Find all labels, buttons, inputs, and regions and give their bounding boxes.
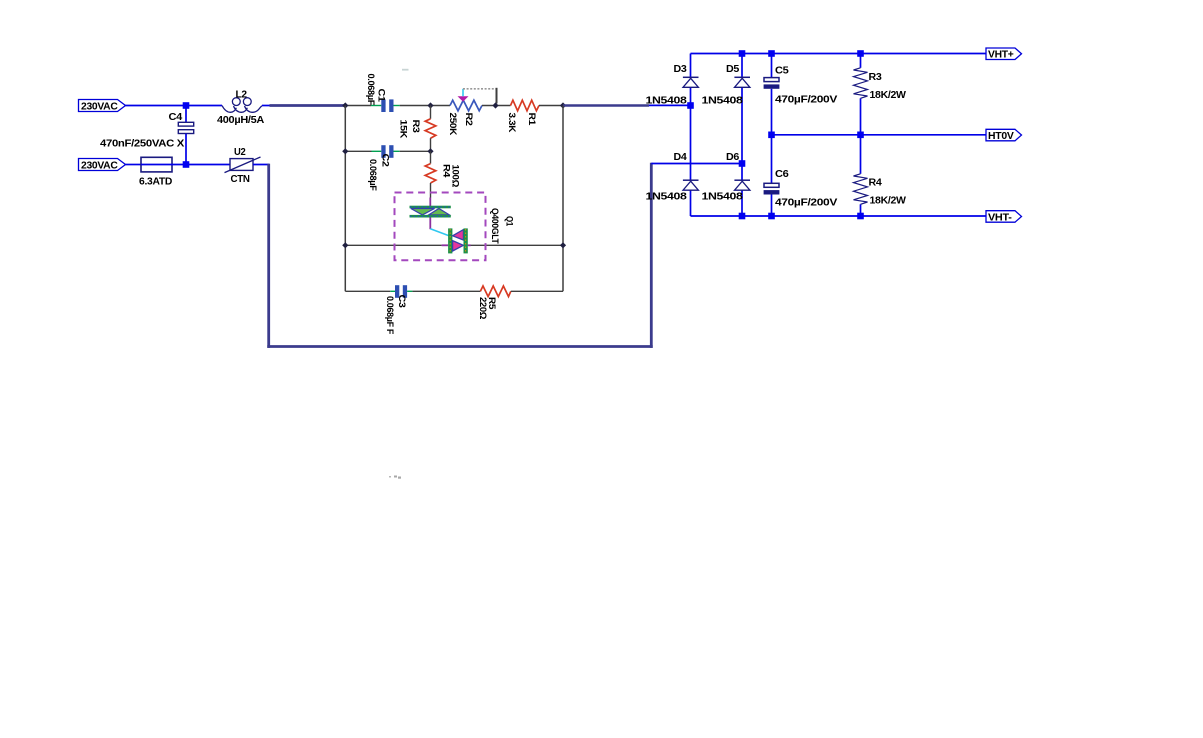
node diamond A xyxy=(342,102,348,108)
wire green stub C3 right xyxy=(407,290,412,292)
svg-text:18K/2W: 18K/2W xyxy=(870,89,907,101)
node diamond B xyxy=(427,102,433,108)
svg-text:230VAC: 230VAC xyxy=(81,101,118,113)
svg-text:1N5408: 1N5408 xyxy=(702,95,744,107)
svg-text:D4: D4 xyxy=(674,151,687,163)
wire gray C3 row left xyxy=(345,290,390,292)
wire blue to bridge ac2 xyxy=(651,163,742,165)
capacitor C2 xyxy=(367,145,394,191)
wire wiper loop vertical xyxy=(496,88,498,104)
port 230VAC bottom xyxy=(79,159,126,172)
resistor R4 18K xyxy=(854,174,907,207)
wire R1 to right node xyxy=(539,105,563,107)
node R3 top junction xyxy=(857,50,864,57)
svg-text:15K: 15K xyxy=(398,120,409,139)
node C6 bottom junction xyxy=(768,213,775,220)
wire column D3 D4 xyxy=(690,54,692,217)
svg-text:C4: C4 xyxy=(169,111,183,123)
wire gray triac row left xyxy=(345,244,441,246)
SECTION: snubber xyxy=(342,69,690,479)
node C5 top junction xyxy=(768,50,775,57)
wire top port to L2 xyxy=(126,105,223,107)
node diamond E xyxy=(342,148,348,154)
SECTION: bridge xyxy=(646,48,1022,223)
node ac2 junction xyxy=(739,160,746,167)
wire purple triac left stub xyxy=(442,244,449,246)
svg-text:1N5408: 1N5408 xyxy=(646,95,688,107)
svg-text:0.068µF: 0.068µF xyxy=(367,159,378,191)
resistor R3 15K xyxy=(398,106,436,152)
wire dotted wiper loop xyxy=(463,88,497,90)
diac left triangle xyxy=(411,209,435,215)
wire green stub C1 left xyxy=(371,105,381,107)
triac left bar xyxy=(448,228,452,253)
svg-text:D3: D3 xyxy=(674,63,687,75)
wire mid rail HT0V xyxy=(772,134,987,136)
svg-text:100Ω: 100Ω xyxy=(450,165,461,188)
dashed enclosure Q1 xyxy=(395,193,486,261)
wire cyan gate xyxy=(430,229,449,236)
svg-text:C6: C6 xyxy=(775,168,789,180)
wire through fuse xyxy=(141,164,230,166)
resistor R3 18K xyxy=(854,68,907,101)
triac right bar xyxy=(464,228,468,253)
resistor R4 100ohm xyxy=(425,151,460,197)
svg-text:1N5408: 1N5408 xyxy=(702,191,744,203)
wire gray C2 to node xyxy=(400,150,431,152)
diac lower bar xyxy=(410,215,451,218)
svg-text:C3: C3 xyxy=(396,295,407,308)
capacitor C6 xyxy=(764,168,838,208)
wire CTN to navy corner xyxy=(253,164,270,166)
SECTION: triac box xyxy=(395,193,515,261)
wire column D5 D6 xyxy=(741,54,743,217)
wire gray right vertical xyxy=(562,106,564,292)
wire L2 to navy xyxy=(262,105,270,107)
diode D3 xyxy=(646,63,699,107)
svg-text:C2: C2 xyxy=(380,154,391,167)
svg-text:U2: U2 xyxy=(234,146,246,158)
wire bottom port xyxy=(126,164,142,166)
wire green stub C1 right xyxy=(394,105,400,107)
artifact smudge top xyxy=(402,69,409,71)
diac upper bar xyxy=(410,206,451,209)
node ac1 junction xyxy=(687,102,694,109)
artifact smudge middle xyxy=(389,476,401,479)
fuse 6.3ATD xyxy=(139,157,173,187)
svg-text:18K/2W: 18K/2W xyxy=(870,195,907,207)
port HT0V xyxy=(986,129,1022,142)
triac lower triangle xyxy=(453,241,464,251)
svg-text:1N5408: 1N5408 xyxy=(646,191,688,203)
wire navy node to bridge xyxy=(563,104,649,107)
wire gray triac row right xyxy=(470,244,563,246)
wire gray C3 to R5 xyxy=(412,290,480,292)
diac right triangle xyxy=(429,209,449,215)
resistor R5 220ohm xyxy=(477,286,511,320)
wire blue to bridge ac1 xyxy=(649,104,691,106)
capacitor C4 xyxy=(100,106,194,165)
svg-text:L2: L2 xyxy=(236,89,248,101)
node diamond C xyxy=(492,102,498,108)
wire top rail VHT+ xyxy=(691,53,987,55)
node diamond D xyxy=(560,102,566,108)
wire column C5 C6 xyxy=(771,54,773,217)
svg-text:C5: C5 xyxy=(775,65,789,77)
wire green stub C2 left xyxy=(372,150,382,152)
inductor L2 xyxy=(217,89,265,127)
svg-text:R1: R1 xyxy=(526,113,537,127)
wire column R3 R4 xyxy=(860,54,862,217)
wire green stub C3 left xyxy=(390,290,395,292)
svg-text:6.3ATD: 6.3ATD xyxy=(139,176,173,188)
svg-text:R4: R4 xyxy=(869,177,882,189)
wire gray top row xyxy=(345,105,371,107)
diode D4 xyxy=(646,151,699,203)
svg-text:470µF/200V: 470µF/200V xyxy=(775,93,837,105)
node diamond G xyxy=(342,242,348,248)
wire R2 to node xyxy=(482,105,511,107)
capacitor C3 xyxy=(384,285,407,334)
node diamond F xyxy=(427,148,433,154)
capacitor C1 xyxy=(365,74,394,113)
wire navy left vertical xyxy=(267,164,270,348)
node junction C4 top xyxy=(183,102,190,109)
capacitor C5 xyxy=(764,65,838,106)
triac upper triangle xyxy=(453,230,464,240)
svg-text:R3: R3 xyxy=(869,71,882,83)
svg-text:VHT+: VHT+ xyxy=(988,49,1014,61)
node R3 bottom junction xyxy=(857,132,864,139)
thermistor U2 CTN xyxy=(225,146,261,185)
svg-text:R2: R2 xyxy=(463,113,474,126)
wire navy top xyxy=(270,104,347,107)
svg-text:3.3K: 3.3K xyxy=(506,113,517,133)
svg-text:R5: R5 xyxy=(486,297,497,310)
wire green stub C2 right xyxy=(394,150,400,152)
node D5 top junction xyxy=(739,50,746,57)
potentiometer R2 250K xyxy=(447,89,482,136)
SECTION: left input xyxy=(79,89,743,348)
wire bottom rail VHT- xyxy=(691,215,987,217)
svg-text:0.068µF F: 0.068µF F xyxy=(384,296,395,335)
svg-text:230VAC: 230VAC xyxy=(81,160,118,172)
wire gray C1 to node xyxy=(400,105,450,107)
svg-text:VHT-: VHT- xyxy=(988,211,1012,223)
wire gray left vertical xyxy=(344,106,346,292)
wire purple diac top xyxy=(429,198,431,207)
svg-text:400µH/5A: 400µH/5A xyxy=(217,114,265,126)
svg-text:0.068µF: 0.068µF xyxy=(365,74,376,106)
diode D5 xyxy=(702,63,751,107)
wire navy right vertical xyxy=(650,163,653,348)
svg-text:CTN: CTN xyxy=(231,173,250,185)
svg-text:D6: D6 xyxy=(726,151,739,163)
wire navy bottom rail xyxy=(267,345,652,348)
svg-text:Q1: Q1 xyxy=(504,216,515,227)
port 230VAC top xyxy=(79,100,126,113)
node diamond H xyxy=(560,242,566,248)
node R4 bottom junction xyxy=(857,213,864,220)
svg-text:C1: C1 xyxy=(376,89,387,103)
wire purple triac right stub xyxy=(468,244,471,246)
svg-text:D5: D5 xyxy=(726,63,739,75)
port VHT+ xyxy=(986,48,1022,61)
wire purple diac bottom xyxy=(429,218,431,230)
wire gray C2 row left xyxy=(345,150,371,152)
svg-text:R3: R3 xyxy=(410,120,421,133)
wire gray R5 to corner xyxy=(511,290,563,292)
svg-text:470nF/250VAC X: 470nF/250VAC X xyxy=(100,137,184,149)
resistor R1 3.3K xyxy=(506,100,539,132)
diode D6 xyxy=(702,151,751,203)
svg-text:HT0V: HT0V xyxy=(988,130,1014,142)
svg-text:Q400GLT: Q400GLT xyxy=(489,208,500,244)
node D6 bottom junction xyxy=(739,213,746,220)
port VHT- xyxy=(986,211,1022,224)
svg-text:250K: 250K xyxy=(447,113,458,136)
svg-text:470µF/200V: 470µF/200V xyxy=(775,196,837,208)
node C5 bottom junction xyxy=(768,132,775,139)
node junction C4 bottom xyxy=(183,161,190,168)
